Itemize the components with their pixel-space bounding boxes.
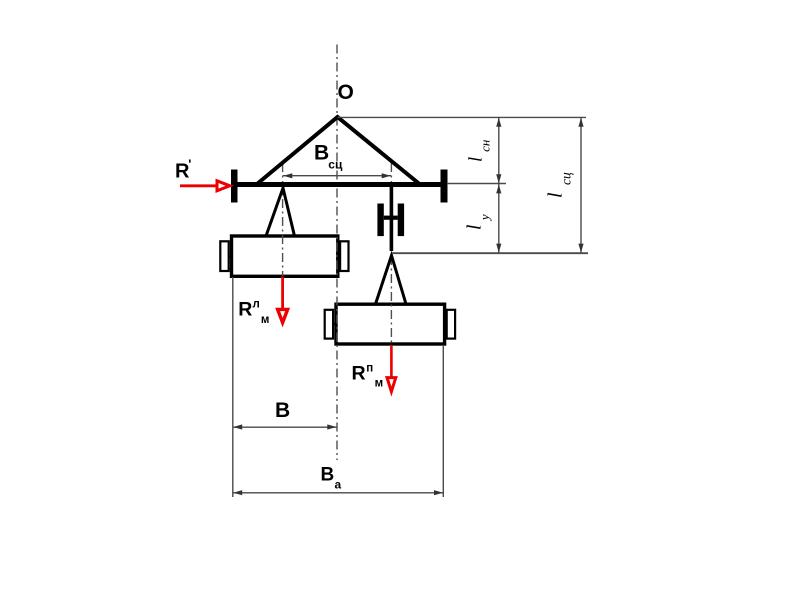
svg-text:В: В: [321, 465, 335, 486]
svg-text:сц: сц: [328, 158, 343, 172]
svg-text:lу: lу: [465, 214, 493, 230]
svg-text:л: л: [253, 299, 260, 311]
svg-text:lсн: lсн: [467, 140, 493, 162]
svg-text:м: м: [375, 377, 384, 389]
svg-text:lсц: lсц: [545, 172, 574, 198]
svg-text:O: O: [338, 81, 354, 104]
svg-text:': ': [188, 157, 191, 172]
svg-text:R: R: [352, 362, 366, 384]
svg-text:R: R: [238, 299, 252, 321]
svg-text:В: В: [314, 142, 329, 165]
svg-text:п: п: [366, 362, 373, 374]
svg-text:а: а: [335, 478, 342, 492]
svg-text:В: В: [275, 399, 290, 422]
svg-text:м: м: [261, 314, 270, 326]
